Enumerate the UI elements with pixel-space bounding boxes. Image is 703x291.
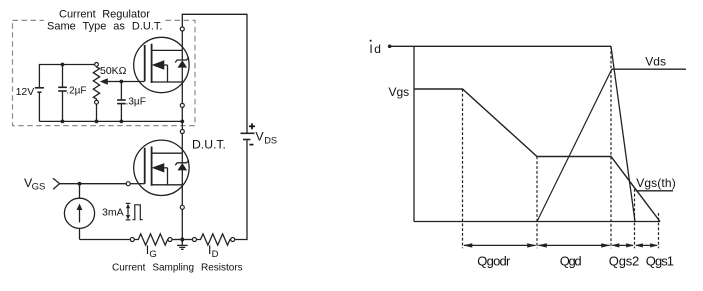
mosfet Q1 current regulator bbox=[134, 37, 189, 92]
wire: VGS to gate bbox=[60, 183, 127, 185]
svg-text:Qgodr: Qgodr bbox=[477, 254, 511, 269]
svg-text:Qgs2: Qgs2 bbox=[609, 254, 639, 269]
svg-text:Vgs(th): Vgs(th) bbox=[636, 176, 676, 190]
svg-text:.2µF: .2µF bbox=[66, 86, 86, 97]
potentiometer wiper arrow bbox=[107, 81, 122, 83]
svg-text:Vgs: Vgs bbox=[389, 85, 410, 99]
pulse icon bbox=[126, 202, 131, 204]
svg-text:DS: DS bbox=[264, 136, 277, 146]
svg-text:Current Sampling Resistors: Current Sampling Resistors bbox=[112, 262, 243, 273]
svg-text:D.U.T.: D.U.T. bbox=[192, 137, 226, 151]
dashed boundary 2 bbox=[536, 157, 538, 249]
trace Vds rise bbox=[537, 69, 612, 221]
wire: DUT source to bottom rail bbox=[181, 185, 183, 206]
svg-text:D: D bbox=[212, 249, 219, 260]
svg-text:3mA: 3mA bbox=[102, 207, 124, 219]
dashed boundary 1 bbox=[462, 89, 464, 248]
dashed enclosure box (current regulator) bbox=[13, 20, 196, 125]
dashed boundary 3 bbox=[610, 46, 612, 248]
resistor IG bbox=[134, 234, 168, 245]
svg-text:GS: GS bbox=[32, 182, 46, 193]
mosfet DUT bbox=[134, 140, 189, 195]
x axis bbox=[414, 221, 660, 223]
current source 3mA bbox=[79, 184, 81, 199]
wire: wiper to gate bbox=[121, 81, 144, 83]
svg-text:V: V bbox=[255, 130, 264, 144]
wire: bottom rail left bbox=[80, 239, 131, 241]
resistor ID bbox=[184, 239, 192, 241]
trace Vgs bbox=[414, 89, 660, 222]
wire: regulator top rail bbox=[39, 65, 96, 88]
line Vgs(th) bbox=[636, 190, 673, 192]
svg-text:Qgs1: Qgs1 bbox=[646, 254, 674, 269]
svg-text:12V: 12V bbox=[16, 86, 35, 98]
dashed boundary 5 bbox=[658, 213, 660, 248]
wire: VDS to bottom rail bbox=[233, 140, 247, 240]
dimension arrow Qgd bbox=[539, 244, 610, 246]
y axis bbox=[413, 46, 415, 221]
svg-text:Qgd: Qgd bbox=[560, 254, 582, 269]
svg-text:G: G bbox=[149, 249, 156, 260]
wire: Q1 drain to top rail bbox=[181, 31, 183, 50]
wire: battery to bottom rail bbox=[38, 92, 40, 121]
battery VDS bbox=[241, 132, 255, 134]
dashed boundary 4 bbox=[634, 189, 636, 248]
dimension arrow Qgs2 bbox=[613, 244, 634, 246]
capacitor .3uF bbox=[120, 82, 122, 101]
input chevron bbox=[53, 178, 60, 189]
svg-text:.3µF: .3µF bbox=[126, 96, 146, 107]
dimension arrow Qgs1 bbox=[636, 244, 657, 246]
wire: Q1 source down to DUT drain bbox=[181, 82, 183, 103]
trace Id fall bbox=[611, 46, 635, 221]
ground bbox=[181, 240, 183, 246]
trace Vds flat bbox=[612, 68, 686, 70]
svg-text:Same Type as D.U.T.: Same Type as D.U.T. bbox=[47, 21, 162, 33]
svg-text:Current Regulator: Current Regulator bbox=[59, 9, 150, 21]
dimension arrow Qgodr bbox=[464, 244, 536, 246]
svg-text:50KΩ: 50KΩ bbox=[100, 65, 127, 77]
trace Id flat bbox=[388, 45, 392, 49]
potentiometer 50K bbox=[95, 63, 99, 67]
svg-text:Id: Id bbox=[369, 42, 381, 56]
svg-text:Vds: Vds bbox=[645, 55, 666, 69]
capacitor .2uF bbox=[62, 65, 64, 88]
wire: regulator bottom rail bbox=[39, 120, 182, 122]
battery 12V bbox=[35, 87, 44, 89]
